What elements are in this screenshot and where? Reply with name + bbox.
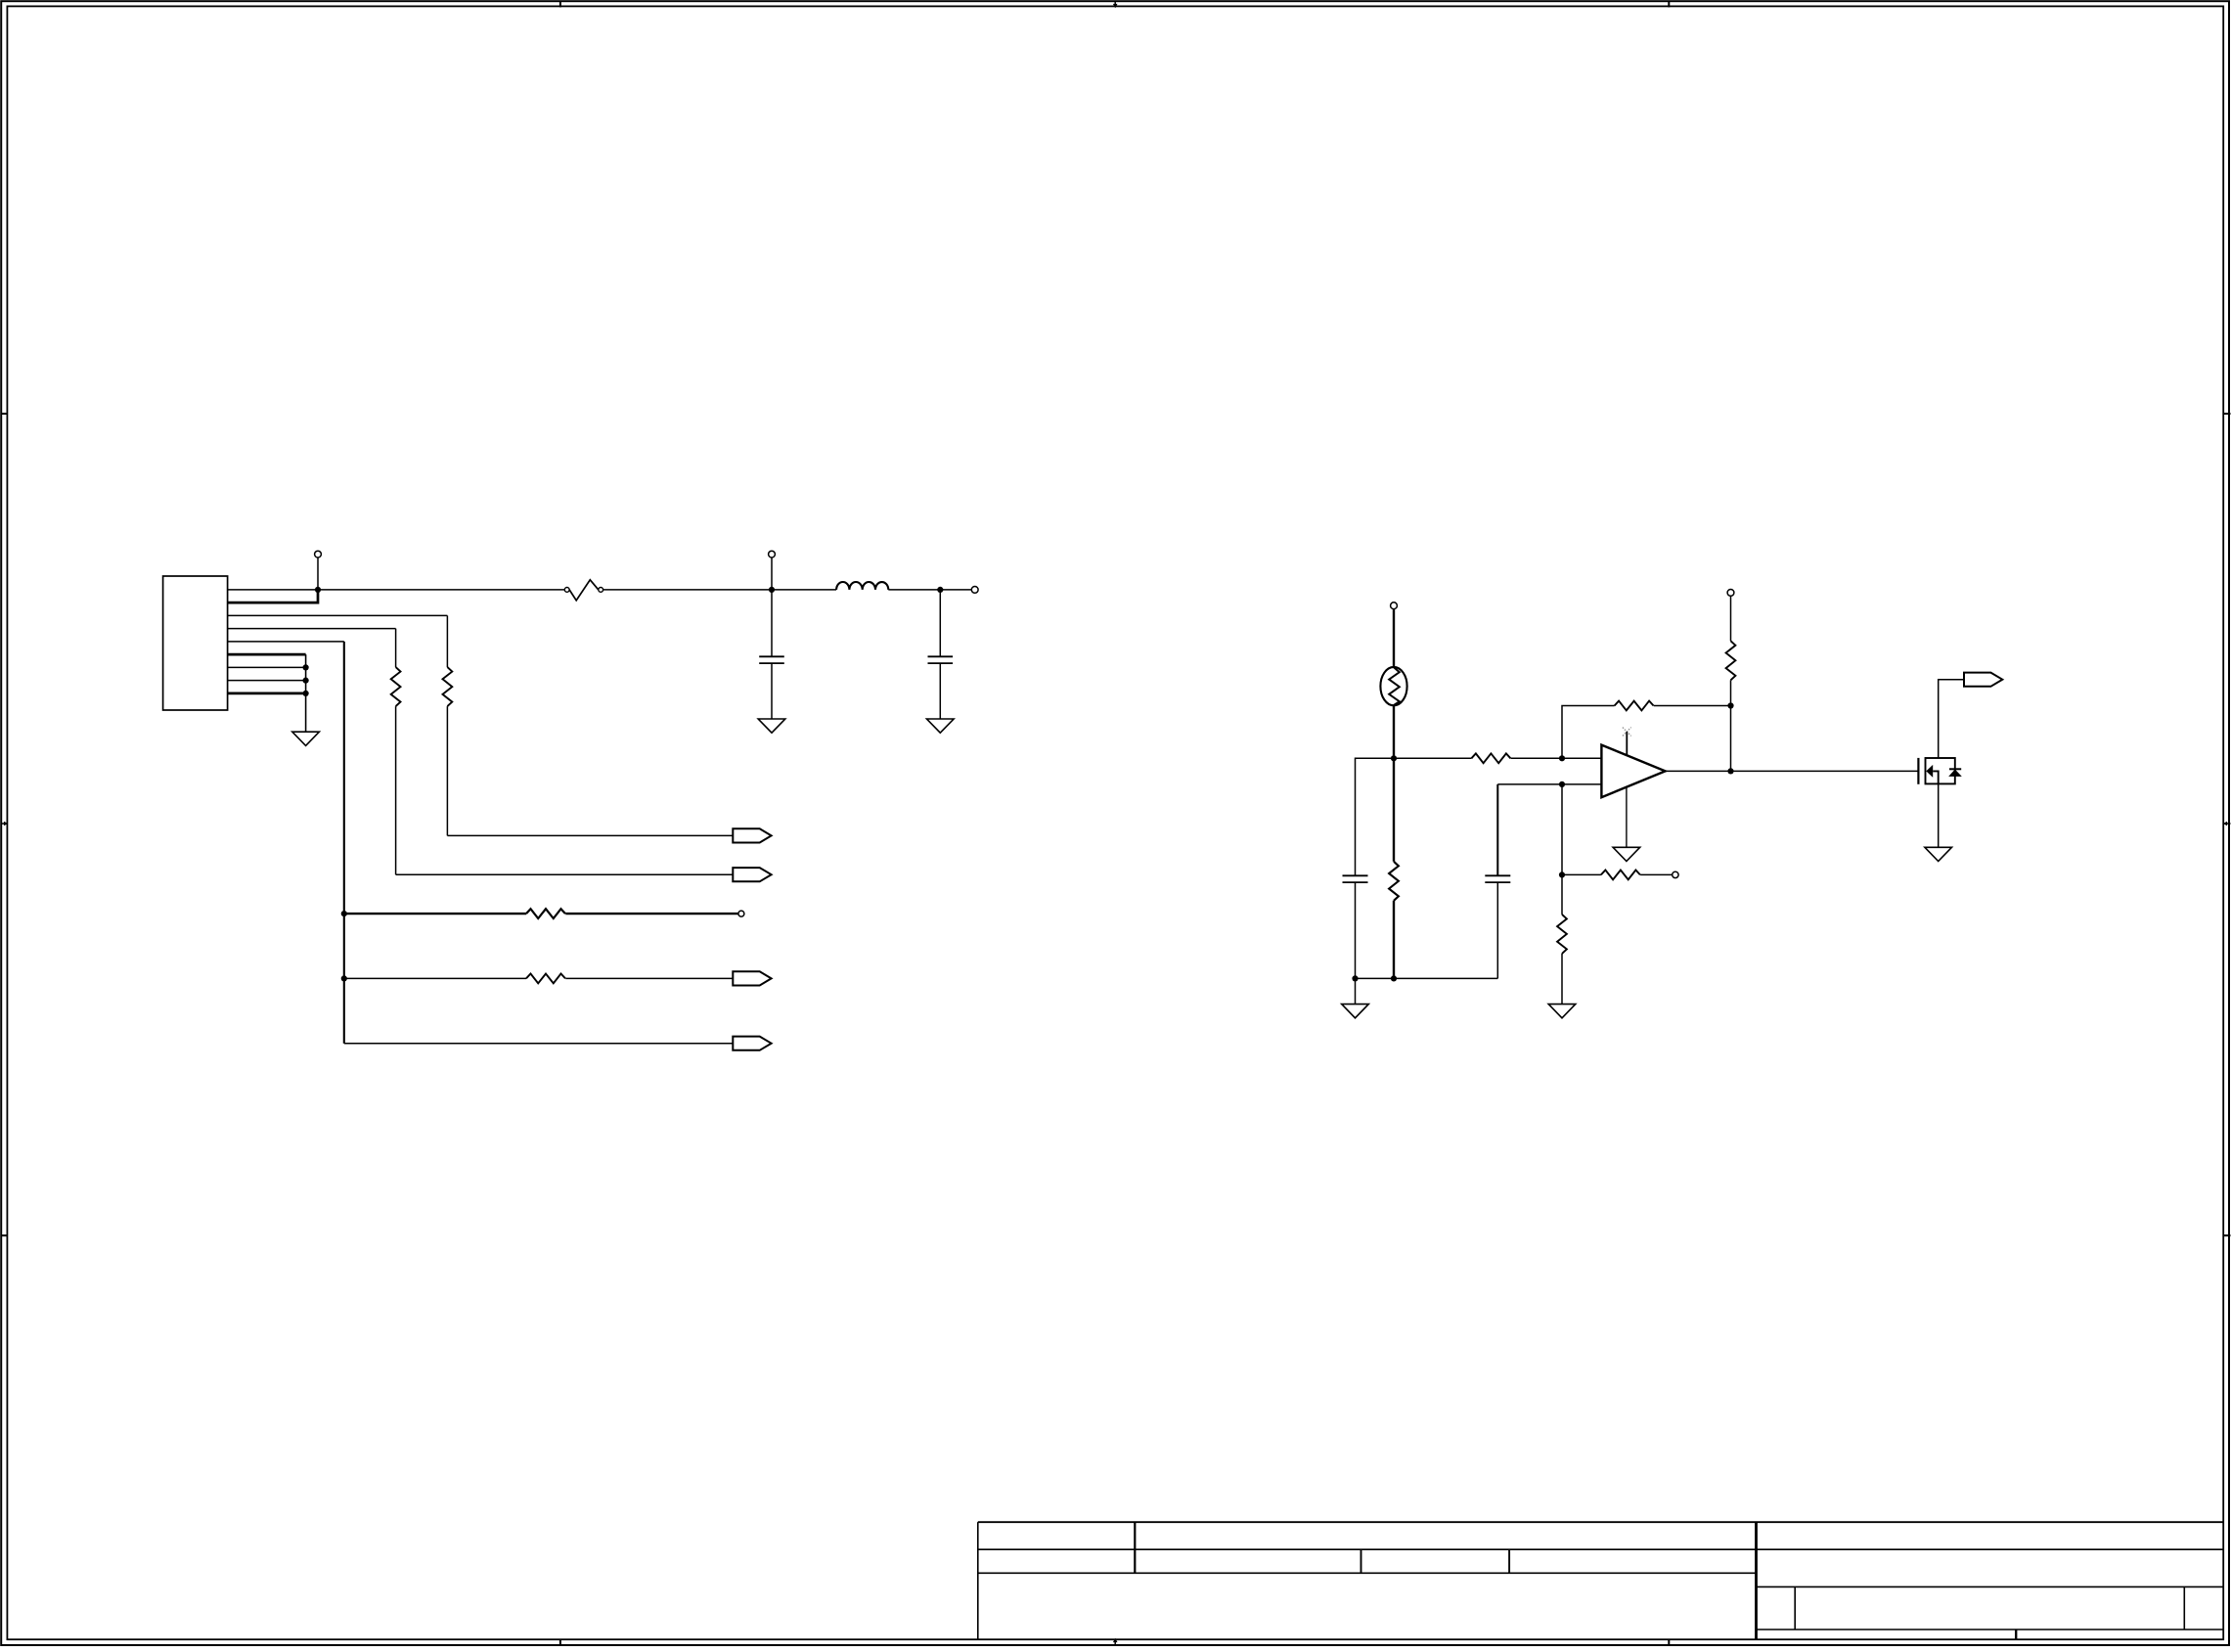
wire pin1 VCC net — [228, 589, 565, 591]
resistor R7 feedback — [1615, 701, 1731, 711]
wire output — [1666, 770, 1919, 772]
terminal — [738, 911, 744, 916]
terminal — [971, 587, 978, 594]
resistor R4 row4 — [344, 974, 734, 984]
frame tick right — [2224, 1234, 2231, 1236]
output flag — [733, 828, 771, 842]
frame tick top — [1668, 1, 1670, 8]
capacitor C3 — [1343, 875, 1368, 978]
wire — [888, 589, 971, 591]
wire row2 — [396, 873, 734, 875]
wire pin6 — [228, 653, 306, 656]
fuse F1 — [564, 580, 602, 601]
wire — [1561, 784, 1563, 875]
junction dot — [341, 911, 347, 916]
inductor L1 — [836, 582, 888, 590]
wire row5 — [344, 1043, 734, 1045]
frame tick bottom — [1668, 1639, 1670, 1646]
ground — [292, 732, 320, 745]
junction dot node F — [1559, 871, 1565, 877]
capacitor C4 — [1485, 875, 1510, 978]
wire pin4 — [228, 628, 396, 630]
wire pin5 — [228, 641, 344, 643]
wire — [1393, 705, 1395, 758]
wire gnd chain — [305, 654, 307, 732]
wire minus input — [1497, 783, 1601, 785]
wire row1 — [447, 834, 733, 836]
wire — [1393, 609, 1395, 668]
resistor R9 — [1562, 871, 1673, 880]
wire cap branch — [1496, 784, 1498, 875]
transistor Q1 MOSFET — [1918, 758, 1961, 784]
resistor R1 riser — [391, 629, 401, 875]
resistor R6 — [1394, 753, 1601, 763]
frame center arrow left — [1, 823, 5, 825]
op-amp U1 — [1601, 745, 1665, 798]
title block — [978, 1522, 2223, 1639]
power pin x — [1623, 728, 1631, 756]
ground — [1548, 1005, 1576, 1018]
wire drain — [1939, 680, 1964, 758]
frame tick left — [1, 1234, 8, 1236]
ground — [927, 719, 955, 733]
junction dot — [1352, 975, 1358, 981]
junction dot — [937, 587, 943, 593]
power stem — [1626, 787, 1628, 848]
frame tick bottom — [559, 1639, 561, 1646]
wire pin3 — [228, 614, 448, 616]
resistor R8 — [1726, 596, 1736, 705]
resistor R10 — [1557, 874, 1567, 1004]
terminal — [1673, 871, 1678, 877]
frame center arrow top — [1114, 1, 1116, 5]
wire — [1730, 706, 1732, 772]
junction dot node A — [1391, 755, 1397, 761]
wire — [772, 589, 836, 591]
junction dot — [769, 587, 775, 593]
frame tick right — [2224, 413, 2231, 415]
junction dot — [303, 678, 309, 684]
ground — [1613, 847, 1640, 861]
wire pin7 — [228, 666, 306, 668]
junction dot — [1391, 975, 1397, 981]
terminal — [1727, 590, 1734, 597]
frame center arrow bottom — [1114, 1641, 1116, 1645]
junction dot node E — [1559, 781, 1565, 787]
output flag — [1964, 673, 2002, 687]
junction dot — [341, 975, 347, 981]
thermistor RT1 — [1380, 667, 1406, 705]
wire — [603, 589, 769, 591]
wire pin9 — [228, 692, 306, 695]
junction dot — [1727, 702, 1733, 708]
resistor R3 row3 — [344, 909, 738, 918]
wire rail — [343, 642, 345, 1044]
resistor R2 riser — [443, 615, 453, 835]
frame tick left — [1, 413, 8, 415]
junction dot — [303, 691, 309, 696]
terminal — [1391, 603, 1398, 609]
terminal — [771, 558, 773, 590]
junction dot — [1727, 768, 1733, 774]
wire rail — [1356, 977, 1498, 979]
ground — [758, 719, 785, 733]
ground — [1342, 1005, 1369, 1018]
output flag — [733, 868, 771, 881]
output flag — [733, 1037, 771, 1050]
connector J1 — [163, 576, 228, 710]
wire pin8 — [228, 680, 306, 682]
wire — [1356, 758, 1395, 875]
wire feedback — [1562, 706, 1615, 759]
capacitor C2 — [928, 590, 954, 719]
junction dot — [303, 664, 309, 670]
wire pin2 — [228, 590, 318, 603]
resistor R5 — [1389, 758, 1399, 978]
output flag — [733, 971, 771, 985]
wire — [1355, 978, 1357, 1004]
wire source — [1938, 783, 1940, 847]
junction dot node B — [1559, 755, 1565, 761]
frame center arrow right — [2226, 823, 2230, 825]
frame tick top — [559, 1, 561, 8]
terminal VCC — [317, 558, 319, 590]
capacitor C1 — [759, 590, 784, 719]
junction dot — [315, 587, 321, 593]
ground — [1925, 847, 1952, 861]
